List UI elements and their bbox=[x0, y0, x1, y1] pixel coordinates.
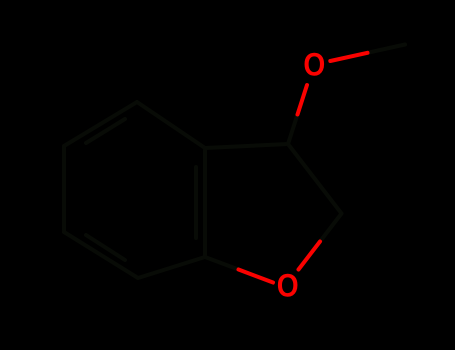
benzene ring edge C6-C7 (bottom-left) bbox=[64, 232, 138, 278]
bond C3-O(methoxy) carbon half bbox=[288, 115, 298, 145]
bond C3-O(methoxy) oxygen half bbox=[298, 85, 308, 115]
benzene ring edge C4-C5 (top-left) bbox=[64, 102, 137, 146]
bond C7a-O1 oxygen half bbox=[239, 270, 274, 283]
bond C2-O1 oxygen half bbox=[299, 242, 321, 270]
svg-text:O: O bbox=[303, 48, 325, 83]
benzene ring edge C3a-C4 (top-right) bbox=[137, 102, 205, 148]
bond C2-O1 carbon half bbox=[320, 214, 342, 242]
bond C3-C2 bbox=[288, 144, 342, 214]
bond O(methoxy)-CH3 oxygen half bbox=[330, 53, 367, 61]
bond C7a-O1 carbon half bbox=[205, 257, 239, 270]
aromatic inner line of C4=C5 bbox=[86, 119, 125, 143]
benzene ring edge C7-C7a (bottom-right) bbox=[138, 257, 205, 278]
benzene ring edge C5-C6 (left vertical) bbox=[62, 146, 66, 232]
aromatic inner line of C6=C7 bbox=[86, 235, 125, 260]
svg-text:O: O bbox=[277, 269, 299, 304]
aromatic inner line of C7a=C3a bbox=[194, 167, 198, 238]
bond O(methoxy)-CH3 carbon half bbox=[368, 45, 406, 53]
bond C3a-C3 bbox=[205, 144, 288, 148]
benzene ring fusion edge C7a-C3a bbox=[203, 148, 207, 257]
